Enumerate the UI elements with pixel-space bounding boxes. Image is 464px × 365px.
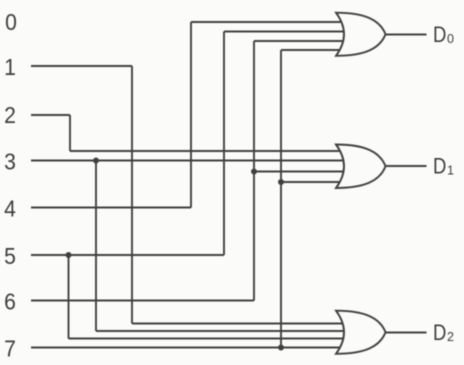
svg-text:2: 2: [4, 102, 16, 128]
junction dot input 7 branch: [278, 345, 284, 351]
wire output D1: [386, 165, 427, 167]
wire input 2 into gate U2: [70, 150, 344, 152]
wire input 5 horizontal: [31, 254, 224, 256]
svg-text:0: 0: [5, 9, 17, 35]
wire input 1 into gate U3: [132, 323, 348, 325]
node 2 label: [4, 102, 16, 128]
svg-text:1: 1: [4, 54, 16, 80]
wire input 3 vertical drop to D2: [95, 161, 97, 332]
wire input 5 into gate U1: [224, 31, 343, 33]
node 7 label: [4, 335, 16, 361]
svg-text:7: 7: [4, 335, 16, 361]
svg-text:D: D: [433, 322, 446, 346]
node 1 label: [4, 54, 16, 80]
svg-text:3: 3: [4, 148, 16, 174]
junction dot input 7 to U2: [278, 179, 284, 185]
wire input 7 into gate U1: [281, 49, 346, 51]
wire input 3 horizontal into gate U2: [31, 160, 344, 162]
wire input 6 into gate U1: [254, 40, 344, 42]
junction dot input 5 branch: [66, 252, 72, 258]
wire input 2 horizontal: [31, 114, 70, 116]
wire input 2 vertical jog: [69, 115, 71, 151]
wire input 4 vertical rise to D0: [190, 22, 192, 208]
node 0 label: [5, 9, 17, 35]
wire input 1 horizontal: [31, 65, 132, 67]
junction dot input 3 branch: [93, 158, 99, 164]
wire input 6 horizontal: [31, 300, 254, 302]
or-gate U1 (D0): [336, 13, 386, 56]
wire input 7 into gate U2: [281, 181, 348, 183]
svg-text:4: 4: [4, 195, 16, 221]
wire input 3 into gate U3: [96, 330, 348, 332]
wire output D0: [386, 34, 427, 36]
node D0 label: [433, 24, 446, 48]
wire input 5 into gate U3: [69, 338, 349, 340]
wire input 7 horizontal into gate U3: [31, 347, 348, 349]
node 4 label: [4, 195, 16, 221]
svg-text:1: 1: [447, 164, 454, 178]
wire input 1 vertical drop to D2: [131, 66, 133, 324]
wire input 7 vertical rise to D0: [280, 50, 282, 348]
or-gate U3 (D2): [336, 311, 386, 354]
svg-text:0: 0: [447, 32, 454, 46]
or-gate U2 (D1): [336, 145, 386, 189]
svg-text:5: 5: [4, 243, 16, 269]
svg-text:D: D: [433, 24, 446, 48]
wire input 6 vertical rise to D0: [253, 41, 255, 301]
svg-text:2: 2: [447, 330, 454, 344]
svg-text:6: 6: [4, 288, 16, 314]
wire output D2: [386, 332, 427, 334]
wire input 5 vertical drop to D2: [68, 255, 70, 339]
svg-text:D: D: [433, 155, 446, 179]
wire input 4 horizontal: [31, 207, 191, 209]
node D1 label: [433, 155, 446, 179]
wire input 6 into gate U2: [254, 171, 347, 173]
node D2 label: [433, 322, 446, 346]
node 5 label: [4, 243, 16, 269]
wire input 4 into gate U1: [191, 21, 342, 23]
node 3 label: [4, 148, 16, 174]
node 6 label: [4, 288, 16, 314]
wire input 5 vertical rise to D0: [223, 32, 225, 256]
junction dot input 6 branch: [251, 169, 257, 175]
